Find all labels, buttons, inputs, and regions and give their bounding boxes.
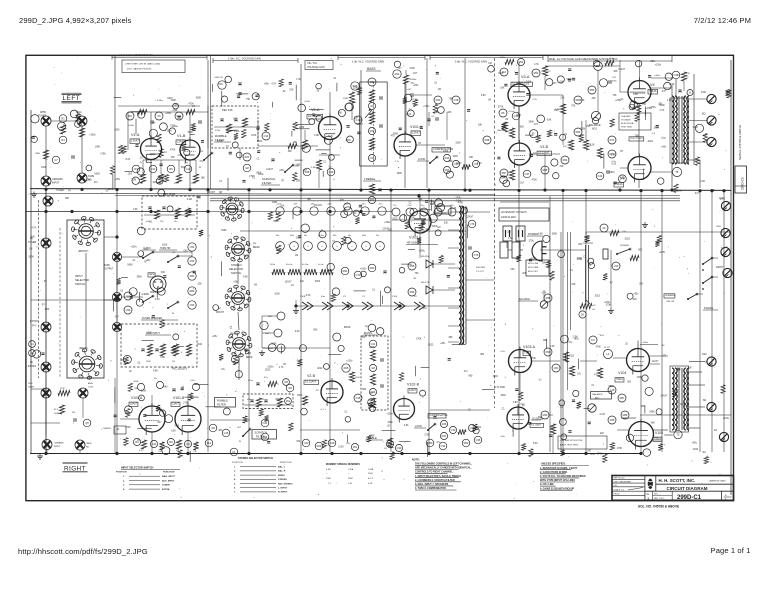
svg-text:18K: 18K bbox=[542, 263, 547, 265]
jack WHD TUNER input J1 bbox=[38, 111, 51, 126]
svg-text:5.0: 5.0 bbox=[591, 338, 595, 342]
svg-text:.005: .005 bbox=[510, 269, 515, 271]
part bubble C40 bbox=[29, 341, 36, 348]
svg-text:C1: C1 bbox=[323, 161, 327, 163]
value callouts cluster top annotations bbox=[212, 79, 294, 101]
svg-text:+265: +265 bbox=[449, 205, 454, 207]
svg-text:R50: R50 bbox=[428, 441, 433, 445]
svg-text:COMPENSATING: COMPENSATING bbox=[429, 414, 448, 417]
svg-text:.01: .01 bbox=[434, 82, 438, 84]
svg-text:22K: 22K bbox=[600, 433, 605, 435]
svg-text:1.5 OUT: 1.5 OUT bbox=[476, 271, 485, 273]
terminal bubble 1B47 bbox=[265, 329, 282, 337]
junction dot on main bus bbox=[247, 188, 250, 191]
wire block divider x463 top bbox=[464, 58, 466, 188]
label TREBLE left bbox=[363, 177, 381, 181]
svg-text:+265v: +265v bbox=[369, 347, 376, 349]
note -30v bbk each test grid bbox=[558, 436, 607, 449]
bubble row below accessory area bbox=[392, 205, 460, 220]
svg-text:IN: IN bbox=[199, 167, 202, 169]
svg-text:SCRATCH: SCRATCH bbox=[255, 431, 267, 435]
junction dot on ground bus bbox=[359, 452, 362, 455]
svg-text:C81: C81 bbox=[554, 366, 559, 370]
interlock box bbox=[512, 242, 520, 258]
label PHASE bbox=[703, 306, 718, 310]
resistor mid 2 bbox=[569, 366, 574, 376]
junction dot on ground bus bbox=[639, 452, 642, 455]
wire right inner rail bbox=[730, 60, 732, 495]
svg-text:+150: +150 bbox=[407, 205, 412, 207]
svg-text:IN: IN bbox=[239, 441, 242, 443]
wire T2 taps bbox=[689, 362, 705, 429]
part bubble C86 bbox=[621, 411, 629, 419]
svg-text:T2: T2 bbox=[676, 433, 680, 437]
part bubble below V3-B 1 bbox=[500, 169, 508, 177]
pot BALANCE ADJ bbox=[589, 111, 601, 130]
svg-text:.047: .047 bbox=[231, 253, 236, 255]
svg-text:+265v: +265v bbox=[267, 367, 274, 369]
svg-text:V1-A: V1-A bbox=[131, 133, 140, 137]
svg-text:STEREO: STEREO bbox=[231, 263, 242, 267]
svg-text:560K: 560K bbox=[95, 173, 101, 175]
svg-text:+265v: +265v bbox=[615, 100, 622, 102]
svg-text:1M: 1M bbox=[520, 183, 523, 185]
junction dot on ground bus bbox=[517, 452, 520, 455]
svg-text:.0022: .0022 bbox=[392, 219, 398, 221]
svg-text:R63: R63 bbox=[576, 130, 581, 134]
svg-text:R44: R44 bbox=[263, 435, 268, 439]
heater chain chevron V3 bbox=[342, 296, 353, 310]
svg-text:18K: 18K bbox=[108, 189, 113, 191]
svg-text:47u: 47u bbox=[199, 161, 204, 163]
wire vertical run bbox=[329, 190, 331, 452]
resistor between jacks bbox=[58, 388, 70, 396]
svg-text:C11: C11 bbox=[151, 167, 156, 171]
svg-text:PL1: PL1 bbox=[207, 441, 212, 445]
svg-text:470K: 470K bbox=[532, 180, 538, 182]
junction dots misc bbox=[417, 194, 420, 197]
part bubble R63 bbox=[574, 128, 582, 136]
label FUSED SPEAKER note bbox=[141, 317, 178, 320]
svg-text:2.: 2. bbox=[123, 480, 125, 482]
part bubble mid 1 bbox=[261, 419, 269, 427]
junction dot on main bus bbox=[660, 189, 663, 192]
supply mid bubbles bbox=[341, 264, 387, 279]
jack TAPE HD J4 bbox=[77, 173, 94, 183]
svg-text:1.5K: 1.5K bbox=[508, 238, 513, 240]
svg-text:V2: V2 bbox=[414, 296, 417, 298]
junction dot on main bus bbox=[710, 189, 713, 192]
svg-text:12u: 12u bbox=[393, 205, 396, 207]
terminal right cen bbox=[716, 226, 730, 238]
svg-text:.027: .027 bbox=[612, 77, 617, 79]
svg-text:1M: 1M bbox=[702, 452, 705, 454]
svg-text:R46: R46 bbox=[445, 156, 450, 160]
svg-text:70db BBK: 70db BBK bbox=[621, 116, 631, 118]
resistor 40K top bbox=[500, 57, 525, 66]
svg-text:.0022: .0022 bbox=[568, 356, 574, 358]
svg-text:MOMENT SPEECH NUMBERS: MOMENT SPEECH NUMBERS bbox=[326, 463, 360, 466]
svg-text:18K: 18K bbox=[501, 177, 506, 179]
svg-text:40Kw: 40Kw bbox=[500, 57, 506, 59]
svg-text:+150v: +150v bbox=[346, 361, 353, 363]
title block scott emblem bbox=[647, 479, 654, 489]
svg-text:100K: 100K bbox=[95, 146, 101, 148]
svg-text:+85v: +85v bbox=[264, 84, 270, 86]
svg-text:4.7K: 4.7K bbox=[452, 208, 457, 210]
svg-text:390K: 390K bbox=[552, 234, 558, 236]
wire parallel sub-buses bbox=[115, 196, 680, 201]
part bubble R28 bbox=[303, 168, 311, 176]
svg-text:USER: USER bbox=[28, 387, 34, 389]
svg-text:C1: C1 bbox=[226, 146, 230, 148]
svg-text:EACH TEST GRID: EACH TEST GRID bbox=[560, 444, 579, 447]
svg-text:FRONT: FRONT bbox=[216, 312, 225, 314]
resistor cathode V1-A bypass bbox=[156, 174, 164, 185]
svg-text:LOUD: LOUD bbox=[418, 157, 425, 161]
bass pot bubble 1 bbox=[368, 78, 376, 86]
pot balance adj right bbox=[588, 392, 612, 413]
svg-text:R43: R43 bbox=[436, 98, 441, 102]
svg-text:LOW: LOW bbox=[88, 387, 94, 389]
svg-text:470K: 470K bbox=[189, 104, 195, 106]
footer url label bbox=[18, 547, 148, 556]
svg-text:R58: R58 bbox=[543, 168, 548, 172]
wire V103 V104 links bbox=[520, 356, 668, 395]
svg-text:150K: 150K bbox=[397, 173, 403, 175]
svg-text:1M: 1M bbox=[284, 380, 288, 384]
junction dot on main bus bbox=[206, 188, 209, 191]
svg-text:47u: 47u bbox=[464, 371, 469, 373]
svg-text:SERIAL 345780 & ABOVE: SERIAL 345780 & ABOVE bbox=[738, 125, 742, 160]
svg-text:8.2K: 8.2K bbox=[590, 144, 595, 146]
svg-text:4. TAPE 8. COMP: 4. TAPE 8. COMPENSATOR bbox=[415, 487, 446, 490]
svg-text:C52: C52 bbox=[190, 259, 195, 263]
svg-text:1.5u: 1.5u bbox=[193, 451, 197, 453]
svg-text:(FRONT): (FRONT) bbox=[78, 250, 88, 253]
label RUMBLE FILTER right bbox=[215, 398, 236, 408]
svg-text:18K: 18K bbox=[469, 157, 474, 159]
svg-text:C24: C24 bbox=[370, 156, 375, 160]
svg-text:12AX7: 12AX7 bbox=[412, 131, 420, 135]
junction dot on ground bus bbox=[186, 452, 189, 455]
svg-text:C56: C56 bbox=[126, 308, 131, 312]
svg-text:33K: 33K bbox=[639, 284, 644, 286]
svg-text:299D-C1: 299D-C1 bbox=[677, 495, 702, 501]
part bubble fuse bbox=[124, 292, 132, 300]
transformer T2 designator bbox=[674, 430, 682, 438]
bass control network box left bbox=[360, 67, 388, 166]
label LOUD right bbox=[414, 423, 436, 431]
svg-text:2000: 2000 bbox=[368, 473, 373, 475]
svg-text:2.2M: 2.2M bbox=[338, 446, 343, 448]
svg-text:1M: 1M bbox=[184, 163, 187, 165]
svg-text:2. CAPACITORS IN MFD.: 2. CAPACITORS IN MFD. bbox=[540, 471, 568, 474]
svg-text:4Ω: 4Ω bbox=[714, 429, 717, 432]
svg-text:OUTPUT: OUTPUT bbox=[104, 269, 114, 271]
svg-text:40u: 40u bbox=[348, 235, 351, 237]
svg-text:1M: 1M bbox=[370, 104, 374, 108]
svg-text:-56v: -56v bbox=[422, 307, 427, 310]
wire vertical run bbox=[300, 64, 302, 188]
svg-text:.047: .047 bbox=[587, 451, 592, 453]
svg-text:75K: 75K bbox=[571, 105, 576, 107]
jack CERAMIC INPUT J3 bbox=[41, 176, 63, 186]
svg-text:12AX7: 12AX7 bbox=[131, 139, 139, 143]
electrolytic capacitor C68 bbox=[376, 242, 385, 251]
svg-text:+300: +300 bbox=[327, 204, 331, 206]
svg-text:PUSHED: PUSHED bbox=[620, 245, 630, 247]
svg-text:40u: 40u bbox=[276, 235, 279, 237]
svg-text:+85v: +85v bbox=[115, 179, 121, 181]
svg-text:EXTRA: EXTRA bbox=[28, 365, 36, 368]
aux mag input network box bbox=[121, 324, 197, 367]
label RIGHT channel bbox=[63, 463, 88, 472]
svg-text:-30v BBK WITH STOM: -30v BBK WITH STOM bbox=[560, 440, 583, 442]
svg-text:33K: 33K bbox=[354, 117, 359, 119]
svg-text:6.8K: 6.8K bbox=[160, 357, 165, 359]
capacitor .027 600v bbox=[609, 77, 618, 84]
svg-text:16Ω: 16Ω bbox=[702, 353, 707, 356]
svg-text:C14: C14 bbox=[264, 134, 269, 138]
wire vertical run bbox=[248, 190, 250, 452]
part bubble R48 bbox=[483, 136, 491, 144]
svg-text:R7: R7 bbox=[610, 283, 614, 285]
svg-text:2.2M: 2.2M bbox=[580, 128, 585, 130]
svg-text:18K: 18K bbox=[711, 190, 716, 192]
svg-text:OFF ON: OFF ON bbox=[666, 301, 675, 303]
heater chain chevron V2 bbox=[414, 296, 425, 310]
svg-text:R1: R1 bbox=[61, 117, 65, 121]
capacitor chain bubble 5 bbox=[188, 301, 196, 309]
capacitor C16 bbox=[271, 159, 274, 161]
svg-text:(L): (L) bbox=[253, 243, 256, 245]
part bubble C41 bbox=[29, 350, 36, 357]
bass pot bubble 4 bbox=[368, 154, 375, 161]
wire vertical run bbox=[518, 165, 520, 188]
transformer T1 designator bbox=[672, 167, 681, 176]
svg-text:7M: 7M bbox=[172, 252, 175, 254]
wire vertical run bbox=[699, 190, 701, 452]
svg-text:-B47: -B47 bbox=[268, 316, 273, 318]
svg-text:100K: 100K bbox=[526, 82, 532, 84]
svg-text:2K: 2K bbox=[602, 226, 605, 230]
svg-text:C1: C1 bbox=[219, 181, 223, 183]
svg-text:IN: IN bbox=[172, 313, 175, 315]
part bubble R95 bbox=[408, 262, 416, 270]
resistor 150K plate V2-A bbox=[343, 92, 355, 103]
svg-text:C1: C1 bbox=[409, 202, 413, 204]
svg-text:PEC 20103(?): PEC 20103(?) bbox=[172, 368, 187, 371]
svg-text:1/2 12AX7: 1/2 12AX7 bbox=[305, 381, 317, 384]
svg-text:+: + bbox=[379, 245, 381, 248]
label STEREO SELECTOR SWITCH bbox=[229, 263, 243, 275]
svg-text:R6: R6 bbox=[169, 167, 173, 171]
power transformer secondary stubs bbox=[448, 212, 459, 342]
part bubble above T1 bbox=[672, 71, 680, 79]
svg-text:8.2K: 8.2K bbox=[517, 84, 522, 86]
svg-text:12AX7: 12AX7 bbox=[652, 360, 660, 363]
svg-text:1. RESISTORS IN OHMS, 1 WATT: 1. RESISTORS IN OHMS, 1 WATT bbox=[540, 467, 578, 470]
svg-text:100K: 100K bbox=[501, 395, 507, 397]
heater chain chevron V1 bbox=[362, 296, 373, 310]
svg-text:R4: R4 bbox=[61, 138, 65, 142]
svg-text:(5): (5) bbox=[30, 361, 33, 364]
svg-text:(REAR): (REAR) bbox=[79, 347, 88, 350]
svg-text:+265v: +265v bbox=[608, 172, 615, 174]
part bubbles below V101 bbox=[133, 438, 191, 447]
svg-text:390K: 390K bbox=[654, 127, 660, 129]
svg-text:470K: 470K bbox=[596, 347, 602, 349]
svg-text:8.2K: 8.2K bbox=[533, 443, 538, 445]
text +450v V4 bbox=[651, 75, 668, 78]
label SCRATCH FILTER right bbox=[237, 427, 277, 443]
wire vertical run bbox=[207, 190, 209, 452]
part bubble under V1 4 bbox=[184, 165, 192, 173]
svg-text:PROD.: PROD. bbox=[614, 494, 621, 496]
svg-text:270K: 270K bbox=[424, 435, 430, 437]
value callouts cluster under V1 band bbox=[133, 189, 203, 236]
svg-text:R81: R81 bbox=[190, 274, 195, 278]
wire vertical run bbox=[300, 190, 302, 452]
svg-text:150K: 150K bbox=[500, 387, 506, 389]
svg-text:12AX7: 12AX7 bbox=[618, 68, 626, 71]
inductor L1 bubble bbox=[603, 347, 612, 359]
wire top rail to V1 bbox=[118, 105, 200, 107]
svg-text:470K: 470K bbox=[458, 202, 464, 204]
svg-text:.01: .01 bbox=[149, 221, 153, 223]
svg-text:680: 680 bbox=[651, 423, 656, 425]
svg-text:1M: 1M bbox=[29, 248, 32, 250]
svg-text:1.5K: 1.5K bbox=[45, 309, 50, 311]
rectifier tube V-201 bbox=[406, 208, 438, 245]
svg-text:BALANCE: BALANCE bbox=[593, 393, 604, 396]
wire vertical run bbox=[518, 106, 520, 143]
electrolytic capacitor C64 bbox=[318, 242, 327, 251]
junction dot on main bus bbox=[517, 189, 520, 192]
svg-text:270K: 270K bbox=[217, 84, 223, 86]
svg-text:.047: .047 bbox=[114, 316, 119, 318]
svg-text:R64: R64 bbox=[563, 158, 568, 162]
svg-text:BASS: BASS bbox=[367, 67, 376, 71]
svg-text:1M: 1M bbox=[295, 255, 298, 257]
svg-text:THERMO: THERMO bbox=[103, 428, 112, 430]
wire vertical run bbox=[150, 160, 152, 188]
wire B+ distribution bundle bbox=[550, 196, 571, 452]
capacitor chain bubble 3 bbox=[188, 272, 196, 280]
bass control network box right bbox=[361, 331, 388, 410]
svg-text:ADJ.: ADJ. bbox=[592, 128, 598, 131]
svg-text:UNLESS SPECIFIED:: UNLESS SPECIFIED: bbox=[541, 463, 566, 466]
footer page number label bbox=[711, 546, 751, 555]
terminal 8 ohm bbox=[702, 112, 716, 126]
svg-text:MONO: MONO bbox=[278, 475, 285, 477]
svg-text:ACCESSORY OUTLETS: ACCESSORY OUTLETS bbox=[501, 211, 527, 214]
svg-text:150K: 150K bbox=[637, 377, 643, 379]
svg-text:WITH VTVM (INPUT 115v LINE): WITH VTVM (INPUT 115v LINE) bbox=[540, 479, 575, 482]
svg-text:+74v: +74v bbox=[532, 99, 538, 101]
wire bottom left links bbox=[46, 398, 83, 453]
svg-text:L1: L1 bbox=[607, 352, 610, 356]
wire vertical run bbox=[116, 190, 118, 452]
part bubble below V3-A 2 bbox=[512, 112, 520, 120]
label AUDIO bbox=[142, 247, 156, 250]
svg-text:R57: R57 bbox=[502, 171, 507, 175]
gain annotation 7db box bbox=[305, 61, 333, 70]
svg-text:+145u: +145u bbox=[190, 380, 195, 382]
svg-text:C34: C34 bbox=[441, 444, 446, 448]
svg-text:V105: V105 bbox=[392, 296, 398, 298]
wire vertical run bbox=[207, 60, 209, 188]
part bubble .0056 C8 bbox=[214, 77, 226, 89]
junction dot on ground bus bbox=[584, 452, 587, 455]
svg-text:TUNER: TUNER bbox=[162, 485, 170, 487]
svg-text:V105: V105 bbox=[655, 431, 663, 435]
electrolytic capacitor C65 bbox=[333, 242, 342, 251]
part bubble below V3-A 1 bbox=[499, 109, 507, 117]
svg-text:SPEAKER: SPEAKER bbox=[665, 294, 676, 297]
note block unless specified bbox=[540, 463, 589, 491]
svg-text:150K: 150K bbox=[493, 376, 499, 378]
value callouts cluster V3 V4 extra bbox=[498, 64, 675, 185]
ground symbol mid right bbox=[608, 308, 614, 314]
svg-text:R: R bbox=[725, 495, 727, 497]
svg-text:INPUT SELECTOR SWITCH: INPUT SELECTOR SWITCH bbox=[121, 467, 154, 470]
svg-text:33K: 33K bbox=[296, 441, 301, 443]
value callouts cluster transformer bottom margin bbox=[658, 362, 730, 464]
svg-text:REF. B-1-64: REF. B-1-64 bbox=[614, 478, 626, 480]
svg-text:0.3: 0.3 bbox=[652, 133, 656, 135]
svg-text:1 db / N.C. VOLTAGE GAIN: 1 db / N.C. VOLTAGE GAIN bbox=[352, 60, 384, 64]
resistor 8.1w bbox=[605, 58, 615, 66]
svg-text:18K: 18K bbox=[500, 88, 505, 90]
part bubble C5a bbox=[155, 112, 163, 120]
svg-text:6.8K: 6.8K bbox=[175, 426, 180, 428]
svg-text:301: 301 bbox=[72, 412, 76, 414]
part bubble +0.5w bbox=[574, 96, 582, 104]
switch scratch filter blade bbox=[284, 164, 294, 173]
svg-text:+: + bbox=[365, 245, 367, 248]
svg-text:+85v: +85v bbox=[661, 146, 667, 148]
wire vertical run bbox=[638, 104, 640, 156]
wire block divider x427 bbox=[426, 58, 428, 188]
svg-text:270K: 270K bbox=[529, 240, 535, 242]
svg-text:75K: 75K bbox=[449, 98, 454, 100]
jack TUNER L J5 bbox=[43, 190, 71, 206]
svg-text:680: 680 bbox=[520, 127, 525, 129]
svg-text:R. INPUT: R. INPUT bbox=[278, 492, 288, 494]
svg-text:3.: 3. bbox=[234, 475, 236, 477]
svg-text:75K: 75K bbox=[174, 105, 179, 107]
jack EXTRA L J7 bbox=[30, 320, 51, 332]
junction dot on main bus bbox=[268, 188, 271, 191]
svg-text:.047: .047 bbox=[661, 91, 666, 93]
svg-text:( INPUT REF. 1MV IN 1MAX & 1M: ( INPUT REF. 1MV IN 1MAX & 1MΩ bbox=[125, 63, 160, 66]
wire V102-A links bbox=[406, 70, 447, 145]
svg-text:(CKT. GAIN W/ PICKUP): (CKT. GAIN W/ PICKUP) bbox=[127, 68, 151, 71]
tube V105 7591A bbox=[629, 419, 664, 450]
svg-text:.0022: .0022 bbox=[265, 370, 271, 372]
svg-text:2.: 2. bbox=[234, 471, 236, 473]
svg-text:TUNER: TUNER bbox=[38, 115, 47, 118]
svg-text:.047: .047 bbox=[146, 260, 151, 262]
resistor 450K bbox=[403, 75, 416, 84]
svg-text:8.2K: 8.2K bbox=[126, 159, 131, 161]
supply bleeder resistor row bbox=[270, 264, 333, 275]
switch SPEAKER on-off bbox=[664, 293, 698, 303]
svg-text:RUMBLE: RUMBLE bbox=[217, 399, 228, 403]
svg-text:75K: 75K bbox=[642, 104, 647, 106]
